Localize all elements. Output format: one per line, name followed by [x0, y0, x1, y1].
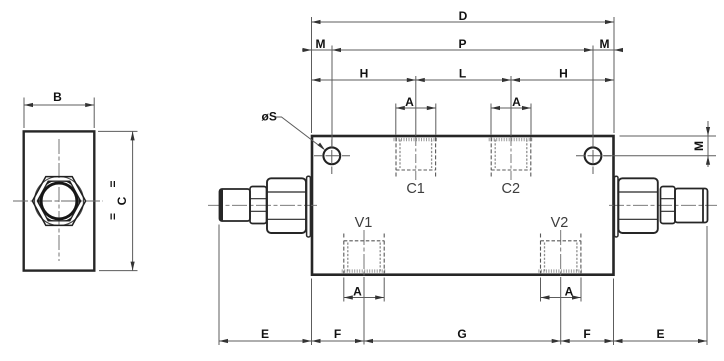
svg-text:M: M — [316, 37, 326, 51]
dimension A over C1 — [396, 107, 436, 109]
mounting hole left — [323, 147, 340, 164]
svg-text:M: M — [692, 141, 706, 151]
left fitting locknut — [250, 187, 267, 224]
dimension H right — [511, 79, 614, 81]
fitting centerline left — [208, 204, 317, 206]
hex plug bore circle — [41, 183, 77, 219]
dimension M right side — [603, 121, 716, 167]
left fitting stud — [220, 189, 251, 221]
port V2 centerline — [560, 230, 562, 277]
port C1 — [394, 137, 439, 197]
svg-text:E: E — [261, 327, 269, 341]
dimension D — [312, 21, 615, 23]
svg-text:E: E — [656, 327, 664, 341]
svg-text:P: P — [458, 37, 466, 51]
hex plug nut outline — [32, 177, 85, 226]
svg-text:F: F — [334, 327, 341, 341]
extension lines bottom — [219, 225, 707, 346]
fitting centerline right — [609, 204, 717, 206]
port V1 — [342, 215, 387, 273]
svg-text:V2: V2 — [551, 215, 569, 231]
left fitting washer — [307, 176, 311, 237]
right fitting hex — [618, 178, 657, 233]
svg-text:C: C — [115, 196, 129, 205]
svg-text:H: H — [559, 67, 568, 81]
dimension C — [98, 131, 138, 270]
svg-text:=: = — [106, 213, 120, 220]
svg-text:=: = — [106, 180, 120, 187]
svg-text:C2: C2 — [502, 181, 521, 197]
left fitting hex — [267, 178, 306, 233]
dimension M top-left — [302, 49, 332, 51]
hex plug centerlines — [13, 139, 103, 261]
svg-text:F: F — [583, 327, 590, 341]
dimension P — [332, 49, 593, 51]
dimension A under V2 — [541, 297, 582, 299]
svg-text:A: A — [405, 95, 414, 109]
main body outline — [312, 136, 614, 275]
right fitting washer — [614, 176, 618, 237]
left view block — [24, 131, 95, 270]
dimension A over C2 — [491, 107, 531, 109]
port C2 — [489, 137, 534, 197]
extension lines top — [312, 17, 615, 147]
svg-text:B: B — [53, 90, 62, 104]
svg-text:A: A — [353, 285, 362, 299]
hex plug washer circle — [35, 177, 84, 226]
dimension row E F G F E — [219, 340, 707, 342]
svg-text:A: A — [565, 285, 574, 299]
dimension M top-right — [593, 49, 623, 51]
hex plug chamfer face hexagon — [37, 181, 80, 221]
svg-text:L: L — [459, 67, 466, 81]
dimension L — [416, 79, 511, 81]
dimension H left — [312, 79, 416, 81]
port V2 — [538, 215, 583, 273]
right fitting stud — [675, 189, 708, 223]
svg-text:øS: øS — [262, 110, 277, 124]
hex corner wedges — [37, 181, 80, 221]
port V1 centerline — [363, 230, 365, 277]
dimension A under V1 — [344, 297, 384, 299]
dimension B — [24, 98, 94, 129]
mounting hole right — [585, 147, 602, 164]
svg-text:G: G — [457, 327, 466, 341]
svg-text:V1: V1 — [355, 215, 373, 231]
svg-text:M: M — [600, 37, 610, 51]
svg-text:D: D — [459, 9, 468, 23]
svg-text:A: A — [512, 95, 521, 109]
right fitting locknut — [661, 187, 676, 224]
svg-text:H: H — [360, 67, 369, 81]
svg-text:C1: C1 — [406, 181, 425, 197]
